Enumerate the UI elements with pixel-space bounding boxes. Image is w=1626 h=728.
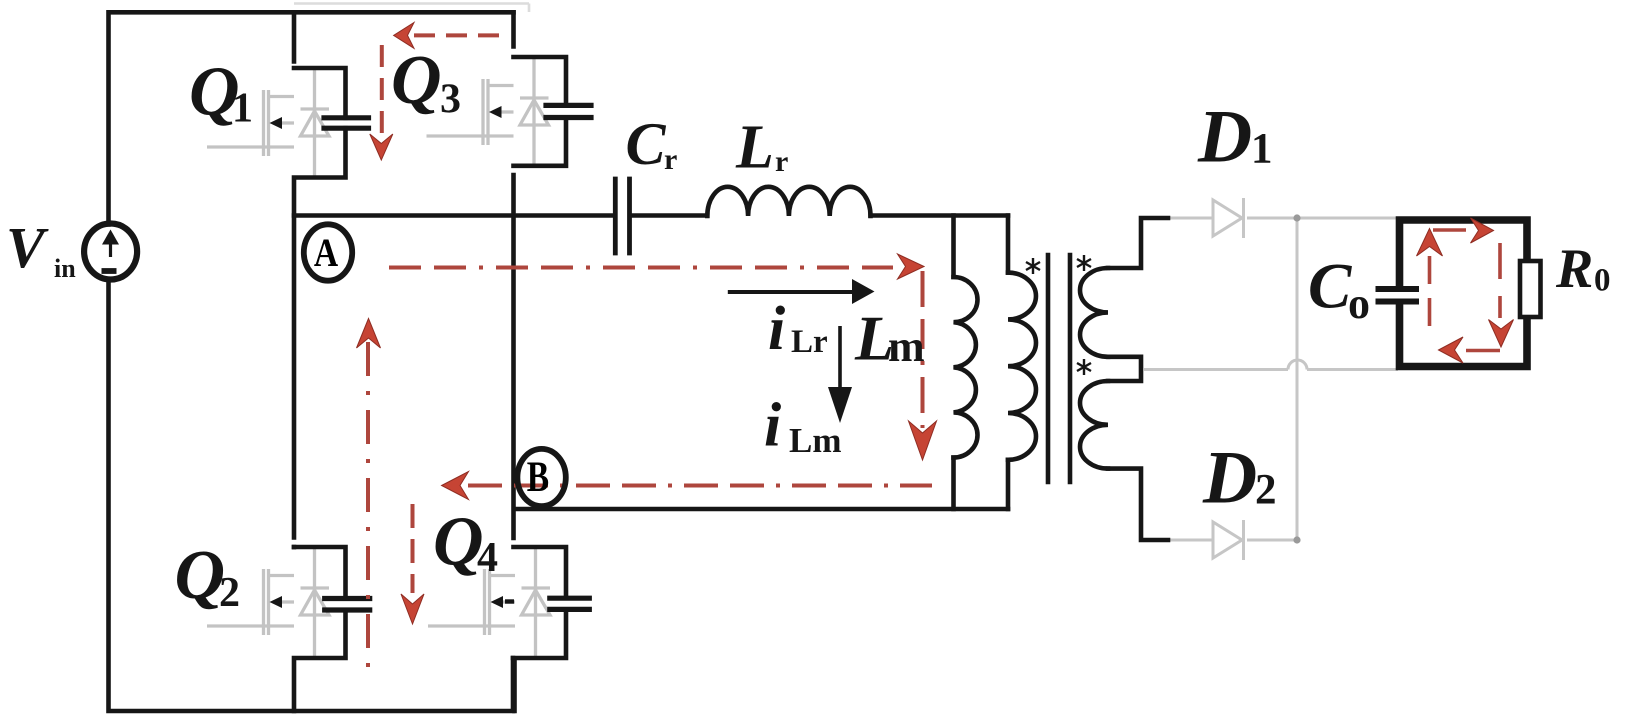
svg-text:B: B — [527, 454, 549, 501]
svg-text:C: C — [626, 111, 667, 177]
svg-text:A: A — [314, 230, 339, 274]
svg-text:3: 3 — [440, 77, 461, 123]
svg-text:1: 1 — [232, 86, 253, 132]
svg-text:in: in — [54, 254, 76, 283]
svg-text:L: L — [735, 114, 774, 182]
svg-text:4: 4 — [477, 535, 498, 581]
svg-text:Lr: Lr — [791, 324, 828, 360]
svg-text:i: i — [768, 295, 785, 363]
svg-text:o: o — [1348, 279, 1370, 328]
svg-text:r: r — [664, 143, 677, 176]
svg-text:D: D — [1202, 437, 1257, 520]
svg-text:Lm: Lm — [789, 421, 842, 460]
svg-text:D: D — [1197, 96, 1252, 179]
svg-text:0: 0 — [1594, 263, 1611, 299]
svg-text:2: 2 — [219, 570, 240, 616]
svg-text:Q: Q — [391, 42, 442, 119]
svg-text:Q: Q — [433, 504, 484, 581]
svg-text:Q: Q — [175, 537, 226, 614]
svg-text:C: C — [1308, 251, 1352, 323]
svg-text:1: 1 — [1251, 126, 1273, 173]
svg-text:R: R — [1555, 238, 1593, 300]
svg-text:i: i — [764, 392, 781, 460]
svg-text:V: V — [6, 215, 49, 280]
svg-text:r: r — [775, 145, 788, 178]
svg-text:2: 2 — [1255, 467, 1277, 514]
svg-text:m: m — [888, 322, 925, 371]
